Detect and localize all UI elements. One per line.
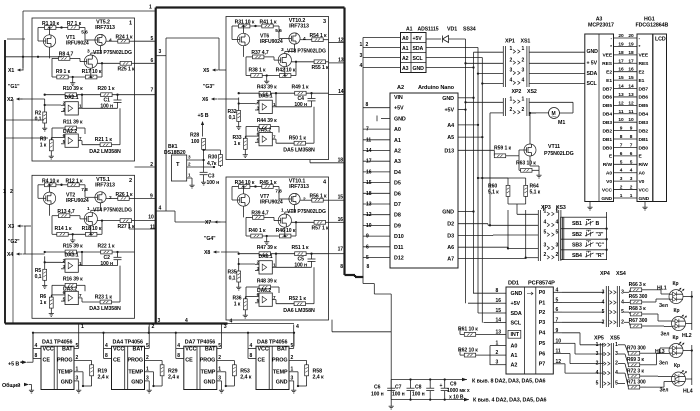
svg-text:E2: E2 bbox=[639, 69, 645, 75]
svg-text:1: 1 bbox=[129, 21, 132, 27]
svg-text:VEE: VEE bbox=[602, 53, 612, 59]
svg-text:18: 18 bbox=[628, 50, 634, 56]
svg-text:11: 11 bbox=[150, 225, 155, 231]
svg-text:R52 1 к: R52 1 к bbox=[289, 296, 307, 302]
svg-text:+: + bbox=[440, 383, 443, 389]
svg-text:A2: A2 bbox=[402, 56, 409, 62]
svg-text:10: 10 bbox=[628, 117, 634, 123]
svg-text:IRF7313: IRF7313 bbox=[289, 184, 309, 190]
svg-text:2: 2 bbox=[109, 195, 112, 201]
svg-text:5,1 к: 5,1 к bbox=[530, 190, 541, 196]
svg-text:A1: A1 bbox=[511, 353, 518, 359]
svg-text:+5 В: +5 В bbox=[198, 113, 209, 119]
svg-text:1 к: 1 к bbox=[40, 143, 47, 149]
svg-text:XP2: XP2 bbox=[512, 89, 522, 95]
svg-text:X6: X6 bbox=[202, 97, 208, 103]
svg-text:16: 16 bbox=[338, 217, 344, 223]
svg-text:5: 5 bbox=[596, 381, 599, 387]
svg-text:R71 300: R71 300 bbox=[627, 379, 646, 385]
svg-text:P1: P1 bbox=[539, 300, 546, 306]
svg-text:1000 мк х: 1000 мк х bbox=[447, 388, 470, 394]
svg-text:16: 16 bbox=[618, 67, 624, 73]
svg-text:2,4 к: 2,4 к bbox=[168, 375, 180, 381]
svg-text:A0: A0 bbox=[511, 343, 518, 349]
svg-text:R25 1 к: R25 1 к bbox=[118, 67, 136, 73]
svg-text:DA3.1: DA3.1 bbox=[64, 253, 78, 259]
svg-text:R40 1 к: R40 1 к bbox=[249, 228, 267, 234]
svg-text:D13: D13 bbox=[444, 148, 454, 154]
svg-text:HL1: HL1 bbox=[657, 286, 667, 292]
svg-text:12: 12 bbox=[618, 100, 624, 106]
svg-text:A0: A0 bbox=[402, 36, 409, 42]
svg-text:С7: С7 bbox=[395, 385, 402, 391]
svg-text:R46 10 к: R46 10 к bbox=[276, 228, 296, 234]
svg-text:SCL: SCL bbox=[511, 320, 522, 326]
svg-text:E1: E1 bbox=[639, 78, 645, 84]
svg-text:14: 14 bbox=[338, 89, 344, 95]
svg-text:+5 В: +5 В bbox=[8, 362, 19, 368]
svg-text:1: 1 bbox=[522, 96, 525, 102]
svg-text:DB4: DB4 bbox=[602, 112, 612, 118]
svg-text:Зел: Зел bbox=[660, 388, 669, 394]
svg-text:X8: X8 bbox=[204, 250, 210, 256]
svg-text:R31 10 к: R31 10 к bbox=[235, 20, 255, 26]
svg-text:R62 10 к: R62 10 к bbox=[458, 348, 478, 354]
svg-text:P4: P4 bbox=[539, 331, 546, 337]
svg-text:4: 4 bbox=[510, 78, 513, 84]
svg-text:R68 3 к: R68 3 к bbox=[629, 306, 647, 312]
svg-text:4: 4 bbox=[621, 300, 624, 306]
svg-text:D7: D7 bbox=[394, 202, 401, 208]
svg-text:8: 8 bbox=[340, 264, 343, 270]
svg-text:XS5: XS5 bbox=[610, 336, 620, 342]
svg-text:13: 13 bbox=[618, 92, 624, 98]
svg-text:R70 300: R70 300 bbox=[627, 346, 646, 352]
svg-text:DB3: DB3 bbox=[639, 120, 649, 126]
svg-text:9: 9 bbox=[556, 328, 559, 334]
svg-text:Arduino Nano: Arduino Nano bbox=[418, 85, 455, 91]
svg-text:X3: X3 bbox=[8, 224, 14, 230]
svg-text:SB1: SB1 bbox=[572, 221, 582, 227]
svg-text:10: 10 bbox=[556, 338, 562, 344]
svg-text:3: 3 bbox=[510, 68, 513, 74]
svg-text:R11 39 к: R11 39 к bbox=[63, 119, 83, 125]
svg-text:17: 17 bbox=[338, 247, 344, 253]
svg-text:DB6: DB6 bbox=[602, 95, 612, 101]
svg-text:1 к: 1 к bbox=[234, 141, 241, 147]
svg-text:1: 1 bbox=[291, 367, 294, 373]
svg-text:"G3": "G3" bbox=[203, 84, 215, 90]
svg-text:CE: CE bbox=[43, 358, 51, 364]
svg-text:3: 3 bbox=[291, 376, 294, 382]
svg-text:VCC: VCC bbox=[258, 347, 269, 353]
svg-text:Зел: Зел bbox=[661, 332, 670, 338]
svg-text:IRFU9024: IRFU9024 bbox=[260, 200, 283, 206]
svg-text:A0: A0 bbox=[639, 171, 645, 177]
svg-text:R10 39 к: R10 39 к bbox=[63, 86, 83, 92]
svg-text:INT: INT bbox=[511, 332, 520, 338]
svg-text:19: 19 bbox=[628, 41, 634, 47]
svg-text:R30: R30 bbox=[208, 155, 217, 161]
svg-text:SDA: SDA bbox=[587, 71, 598, 77]
svg-text:1: 1 bbox=[556, 209, 559, 215]
svg-text:18: 18 bbox=[618, 50, 624, 56]
svg-text:9: 9 bbox=[366, 234, 369, 240]
svg-text:R57 1 к: R57 1 к bbox=[312, 226, 330, 232]
svg-text:A6: A6 bbox=[447, 245, 454, 251]
svg-text:DB3: DB3 bbox=[602, 120, 612, 126]
svg-text:100: 100 bbox=[191, 139, 200, 145]
svg-text:PROG: PROG bbox=[127, 358, 143, 364]
svg-text:R42 10 к: R42 10 к bbox=[276, 67, 296, 73]
svg-text:R50 1 к: R50 1 к bbox=[289, 136, 307, 142]
svg-text:Кр: Кр bbox=[674, 308, 680, 314]
svg-text:4: 4 bbox=[630, 168, 633, 174]
svg-text:2: 2 bbox=[556, 252, 559, 258]
svg-text:V0: V0 bbox=[639, 179, 645, 185]
svg-text:R69 3 к: R69 3 к bbox=[627, 357, 645, 363]
svg-text:A0: A0 bbox=[606, 171, 612, 177]
svg-text:8: 8 bbox=[366, 102, 369, 108]
svg-text:5: 5 bbox=[146, 343, 149, 349]
svg-text:DA6 LM358N: DA6 LM358N bbox=[283, 308, 315, 314]
svg-text:2,4 к: 2,4 к bbox=[240, 375, 252, 381]
svg-text:20: 20 bbox=[628, 33, 634, 39]
svg-text:*: * bbox=[610, 44, 612, 50]
svg-text:VT4 P75N02LDG: VT4 P75N02LDG bbox=[93, 207, 132, 213]
svg-text:12: 12 bbox=[338, 37, 344, 43]
svg-text:SCL: SCL bbox=[587, 81, 598, 87]
svg-text:3: 3 bbox=[281, 47, 284, 53]
svg-text:6: 6 bbox=[620, 151, 623, 157]
svg-text:X5: X5 bbox=[203, 68, 209, 74]
svg-text:2: 2 bbox=[146, 355, 149, 361]
svg-text:A4: A4 bbox=[447, 123, 454, 129]
svg-text:XS2: XS2 bbox=[527, 89, 537, 95]
svg-text:2: 2 bbox=[615, 361, 618, 367]
svg-text:18: 18 bbox=[366, 191, 372, 197]
svg-text:VD1: VD1 bbox=[447, 27, 457, 33]
svg-text:TEMP: TEMP bbox=[58, 369, 73, 375]
svg-text:VCC: VCC bbox=[43, 347, 54, 353]
svg-text:GND: GND bbox=[131, 379, 143, 385]
svg-text:D11: D11 bbox=[394, 245, 403, 251]
svg-text:DB0: DB0 bbox=[639, 145, 649, 151]
svg-text:+5V: +5V bbox=[511, 301, 521, 307]
svg-text:DB1: DB1 bbox=[602, 137, 612, 143]
svg-text:Зел: Зел bbox=[659, 303, 668, 309]
svg-text:A7: A7 bbox=[447, 256, 454, 262]
svg-text:17: 17 bbox=[618, 58, 624, 64]
svg-text:E2: E2 bbox=[606, 69, 612, 75]
svg-text:В: В bbox=[596, 221, 600, 227]
svg-text:4: 4 bbox=[303, 36, 306, 42]
svg-text:3: 3 bbox=[158, 318, 161, 324]
svg-text:"G4": "G4" bbox=[204, 236, 216, 242]
svg-text:DA2 LM358N: DA2 LM358N bbox=[89, 149, 121, 155]
svg-text:13: 13 bbox=[628, 92, 634, 98]
svg-text:R49 1 к: R49 1 к bbox=[292, 85, 310, 91]
svg-text:R23 1 к: R23 1 к bbox=[95, 294, 113, 300]
svg-text:3: 3 bbox=[224, 324, 227, 330]
svg-text:3: 3 bbox=[360, 53, 363, 59]
svg-text:+5V: +5V bbox=[413, 36, 423, 42]
svg-text:7: 7 bbox=[556, 317, 559, 323]
svg-text:VT11: VT11 bbox=[548, 144, 560, 150]
svg-text:GND: GND bbox=[601, 196, 612, 202]
svg-text:R20 1 к: R20 1 к bbox=[98, 86, 116, 92]
svg-text:5: 5 bbox=[291, 343, 294, 349]
svg-text:1: 1 bbox=[544, 209, 547, 215]
svg-text:17: 17 bbox=[366, 159, 372, 165]
svg-text:12: 12 bbox=[556, 359, 562, 365]
svg-text:XS1: XS1 bbox=[521, 39, 531, 45]
svg-text:Общий: Общий bbox=[2, 382, 20, 389]
svg-text:GND: GND bbox=[511, 291, 523, 297]
svg-text:0,1: 0,1 bbox=[35, 274, 42, 280]
svg-text:R66 3 к: R66 3 к bbox=[629, 282, 647, 288]
svg-text:R28: R28 bbox=[190, 133, 199, 139]
svg-text:D5: D5 bbox=[394, 181, 401, 187]
svg-text:2: 2 bbox=[218, 355, 221, 361]
svg-text:VIN: VIN bbox=[394, 95, 403, 101]
svg-text:12: 12 bbox=[628, 100, 634, 106]
svg-text:6: 6 bbox=[556, 307, 559, 313]
svg-text:T: T bbox=[176, 162, 180, 168]
svg-text:5: 5 bbox=[615, 381, 618, 387]
svg-text:VT8 P75N02LDG: VT8 P75N02LDG bbox=[287, 49, 326, 55]
svg-text:3: 3 bbox=[87, 49, 90, 55]
svg-text:Кр: Кр bbox=[673, 335, 679, 341]
svg-text:SS34: SS34 bbox=[463, 27, 476, 33]
svg-text:х 10 В: х 10 В bbox=[449, 395, 464, 401]
svg-text:R21 1 к: R21 1 к bbox=[95, 137, 113, 143]
svg-text:+ 5V: + 5V bbox=[587, 60, 598, 66]
svg-text:IRF7313: IRF7313 bbox=[95, 25, 115, 31]
svg-text:DB1: DB1 bbox=[639, 137, 649, 143]
svg-text:1: 1 bbox=[510, 46, 513, 52]
svg-text:4: 4 bbox=[185, 318, 188, 324]
svg-text:A3: A3 bbox=[394, 159, 401, 165]
svg-text:IRF7313: IRF7313 bbox=[95, 182, 115, 188]
svg-text:8: 8 bbox=[250, 353, 253, 359]
svg-text:5: 5 bbox=[366, 255, 369, 261]
svg-text:2: 2 bbox=[129, 178, 132, 184]
svg-text:R17 10 к: R17 10 к bbox=[82, 69, 102, 75]
svg-text:3: 3 bbox=[544, 243, 547, 249]
svg-text:P5: P5 bbox=[539, 341, 546, 347]
svg-text:D10: D10 bbox=[394, 234, 404, 240]
svg-text:DB5: DB5 bbox=[639, 103, 649, 109]
svg-text:10: 10 bbox=[618, 117, 624, 123]
svg-text:DB7: DB7 bbox=[602, 86, 612, 92]
svg-text:R67 300: R67 300 bbox=[629, 318, 648, 324]
svg-text:К выв. 8 DA2, DA3, DA5, DA6: К выв. 8 DA2, DA3, DA5, DA6 bbox=[472, 379, 546, 385]
svg-text:20: 20 bbox=[618, 33, 624, 39]
svg-text:5: 5 bbox=[602, 309, 605, 315]
svg-text:7,8: 7,8 bbox=[81, 187, 88, 193]
svg-text:DA6.1: DA6.1 bbox=[258, 254, 272, 260]
svg-text:DA2.1: DA2.1 bbox=[64, 95, 78, 101]
svg-text:5: 5 bbox=[621, 309, 624, 315]
svg-text:2: 2 bbox=[10, 189, 13, 195]
svg-text:15: 15 bbox=[338, 195, 344, 201]
svg-text:D12: D12 bbox=[394, 256, 404, 262]
svg-text:2: 2 bbox=[602, 319, 605, 325]
svg-text:E1: E1 bbox=[606, 78, 612, 84]
svg-text:DB7: DB7 bbox=[639, 86, 649, 92]
svg-text:DB2: DB2 bbox=[639, 128, 649, 134]
svg-text:R14 1 к: R14 1 к bbox=[55, 226, 73, 232]
svg-text:1: 1 bbox=[87, 206, 90, 212]
svg-text:5,6: 5,6 bbox=[81, 30, 88, 36]
svg-text:3: 3 bbox=[76, 376, 79, 382]
svg-text:PROG: PROG bbox=[272, 358, 288, 364]
svg-text:PCF8574P: PCF8574P bbox=[528, 281, 555, 287]
svg-text:+5V: +5V bbox=[394, 106, 404, 112]
svg-text:R72 3 к: R72 3 к bbox=[627, 368, 645, 374]
svg-text:A5: A5 bbox=[447, 135, 454, 141]
svg-text:IRFU9024: IRFU9024 bbox=[260, 39, 283, 45]
svg-text:VCC: VCC bbox=[602, 187, 613, 193]
svg-text:DA5.1: DA5.1 bbox=[258, 94, 272, 100]
svg-text:6: 6 bbox=[630, 151, 633, 157]
svg-text:7: 7 bbox=[366, 127, 369, 133]
svg-text:R65 300: R65 300 bbox=[629, 294, 648, 300]
svg-text:R43 39 к: R43 39 к bbox=[257, 85, 277, 91]
svg-text:X7: X7 bbox=[205, 220, 211, 226]
svg-text:2: 2 bbox=[510, 57, 513, 63]
svg-text:DB6: DB6 bbox=[639, 95, 649, 101]
svg-text:7: 7 bbox=[630, 142, 633, 148]
svg-text:GND: GND bbox=[587, 49, 599, 55]
svg-text:TEMP: TEMP bbox=[201, 369, 216, 375]
svg-text:VEE: VEE bbox=[639, 53, 649, 59]
svg-text:P2: P2 bbox=[539, 310, 546, 316]
svg-text:2: 2 bbox=[544, 252, 547, 258]
svg-text:R51 1 к: R51 1 к bbox=[292, 245, 310, 251]
svg-text:1: 1 bbox=[360, 42, 363, 48]
svg-text:2: 2 bbox=[366, 42, 369, 48]
svg-text:GND: GND bbox=[61, 379, 73, 385]
svg-text:D9: D9 bbox=[394, 223, 401, 229]
svg-text:3: 3 bbox=[218, 376, 221, 382]
svg-text:GND: GND bbox=[639, 196, 650, 202]
svg-text:2,4 к: 2,4 к bbox=[98, 375, 110, 381]
svg-text:8: 8 bbox=[367, 264, 370, 270]
svg-text:A1: A1 bbox=[406, 27, 413, 33]
svg-text:4: 4 bbox=[360, 63, 363, 69]
svg-text:1: 1 bbox=[615, 342, 618, 348]
svg-text:4: 4 bbox=[250, 343, 253, 349]
svg-text:R15 39 к: R15 39 к bbox=[63, 243, 83, 249]
svg-text:SDA: SDA bbox=[511, 311, 522, 317]
svg-text:Зел: Зел bbox=[659, 361, 668, 367]
svg-text:3: 3 bbox=[630, 176, 633, 182]
svg-text:D2: D2 bbox=[447, 222, 454, 228]
svg-text:GND: GND bbox=[204, 379, 216, 385]
svg-text:С6: С6 bbox=[374, 385, 381, 391]
svg-text:4: 4 bbox=[544, 220, 547, 226]
svg-text:XP1: XP1 bbox=[505, 39, 515, 45]
svg-text:3: 3 bbox=[621, 289, 624, 295]
svg-text:11: 11 bbox=[619, 109, 624, 115]
svg-text:11: 11 bbox=[366, 137, 371, 143]
svg-text:FDCG12864B: FDCG12864B bbox=[636, 23, 669, 29]
svg-text:SCL: SCL bbox=[413, 56, 424, 62]
svg-text:DA1 TP4056: DA1 TP4056 bbox=[42, 340, 72, 346]
svg-text:DA4 TP4056: DA4 TP4056 bbox=[113, 340, 143, 346]
svg-text:DB0: DB0 bbox=[602, 145, 612, 151]
svg-text:1 к: 1 к bbox=[40, 300, 47, 306]
svg-text:GND: GND bbox=[442, 96, 454, 102]
svg-text:CE: CE bbox=[258, 358, 266, 364]
svg-text:3: 3 bbox=[556, 243, 559, 249]
svg-text:4: 4 bbox=[556, 220, 559, 226]
svg-text:2: 2 bbox=[620, 185, 623, 191]
svg-text:4: 4 bbox=[230, 319, 233, 325]
svg-text:IRFU9024: IRFU9024 bbox=[66, 198, 89, 204]
svg-text:8: 8 bbox=[177, 353, 180, 359]
svg-text:CE: CE bbox=[185, 358, 193, 364]
svg-text:A2: A2 bbox=[397, 85, 404, 91]
svg-text:5: 5 bbox=[556, 229, 559, 235]
svg-text:3: 3 bbox=[602, 289, 605, 295]
svg-text:LCD: LCD bbox=[655, 37, 666, 43]
svg-text:5: 5 bbox=[630, 159, 633, 165]
svg-text:X2: X2 bbox=[7, 97, 13, 103]
svg-text:PROG: PROG bbox=[200, 358, 216, 364]
svg-text:DD1: DD1 bbox=[508, 281, 519, 287]
svg-text:A1: A1 bbox=[402, 46, 409, 52]
svg-text:С9: С9 bbox=[450, 382, 457, 388]
svg-text:100 н: 100 н bbox=[392, 392, 405, 398]
svg-text:BAT: BAT bbox=[205, 347, 216, 353]
svg-text:SB2: SB2 bbox=[572, 232, 582, 238]
svg-text:9: 9 bbox=[150, 193, 153, 199]
svg-text:17: 17 bbox=[628, 58, 634, 64]
svg-text:4: 4 bbox=[296, 324, 299, 330]
svg-text:1: 1 bbox=[149, 5, 152, 11]
svg-text:4: 4 bbox=[35, 343, 38, 349]
svg-text:3: 3 bbox=[615, 351, 618, 357]
svg-text:0,1: 0,1 bbox=[229, 115, 236, 121]
svg-text:1 к: 1 к bbox=[234, 302, 241, 308]
svg-text:P6: P6 bbox=[539, 351, 546, 357]
svg-text:"З": "З" bbox=[596, 232, 605, 238]
svg-text:RES: RES bbox=[602, 61, 613, 67]
svg-text:MCP23017: MCP23017 bbox=[588, 23, 614, 29]
svg-text:15: 15 bbox=[628, 75, 634, 81]
svg-text:R47 39 к: R47 39 к bbox=[257, 245, 277, 251]
svg-text:2: 2 bbox=[630, 185, 633, 191]
svg-text:4: 4 bbox=[620, 168, 623, 174]
svg-text:DA7 TP4056: DA7 TP4056 bbox=[185, 340, 215, 346]
svg-text:9: 9 bbox=[630, 126, 633, 132]
svg-text:1: 1 bbox=[81, 324, 84, 330]
svg-text:R59 1 к: R59 1 к bbox=[494, 146, 512, 152]
svg-text:7,8: 7,8 bbox=[275, 189, 282, 195]
svg-text:4: 4 bbox=[596, 370, 599, 376]
svg-text:5: 5 bbox=[218, 343, 221, 349]
svg-text:5,6: 5,6 bbox=[275, 28, 282, 34]
svg-text:IRFU9024: IRFU9024 bbox=[66, 41, 89, 47]
svg-text:4: 4 bbox=[177, 343, 180, 349]
svg-text:HL4: HL4 bbox=[683, 389, 693, 395]
svg-text:2: 2 bbox=[303, 197, 306, 203]
svg-text:GND: GND bbox=[394, 116, 406, 122]
svg-text:4: 4 bbox=[602, 300, 605, 306]
